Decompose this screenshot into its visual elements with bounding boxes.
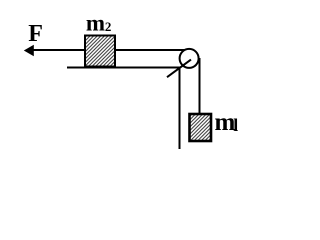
- svg-text:2: 2: [105, 19, 112, 34]
- wire: table front edge (vertical): [179, 67, 181, 150]
- block m2: [85, 36, 115, 67]
- wire: rope from pulley down to block m1: [199, 58, 201, 114]
- svg-text:l: l: [233, 115, 238, 135]
- svg-text:m: m: [86, 10, 105, 35]
- wire: rope from force arrow to block m2: [32, 49, 85, 51]
- block m1: [190, 114, 212, 141]
- pulley: [180, 49, 199, 68]
- force arrow head (points left): [24, 45, 34, 56]
- wire: table top surface: [67, 67, 181, 69]
- wire: rope from block m2 to pulley: [115, 49, 188, 51]
- svg-text:F: F: [28, 21, 43, 47]
- pulley support arm (diagonal): [167, 60, 191, 78]
